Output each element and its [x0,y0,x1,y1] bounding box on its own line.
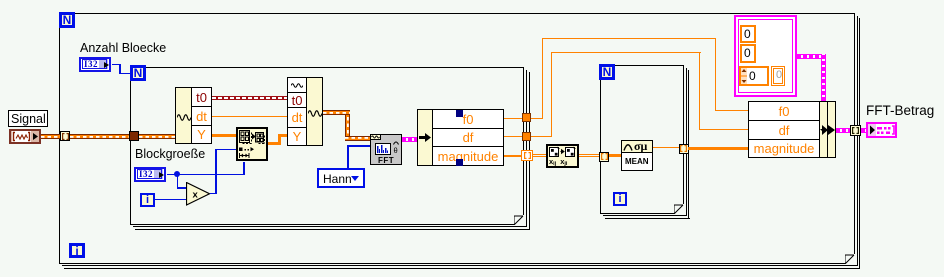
svg-text:xijxji: xijxji [549,157,568,166]
Signal waveform-array control [9,129,41,144]
Transpose 2D Array node [546,144,579,168]
f0 wire to tunnel [504,118,523,119]
Y subset wire to node2 with jog [267,142,281,145]
loop2 count terminal N [599,64,615,80]
I32 control Blockgroesse [134,167,166,182]
I32 control Anzahl Bloecke [79,57,111,72]
outer loop auto-index output tunnel [850,125,861,136]
loop2 iteration terminal i [613,192,627,206]
f0 tunnel on loop1 [522,113,531,122]
solid tunnel on loop1 [129,131,139,141]
cluster wire Bundle to outer tunnel [836,128,852,133]
cluster constant [734,15,797,97]
MEAN node [621,140,653,171]
wire tunnel to MEAN [609,154,621,157]
cluster wire tunnel to indicator [861,128,867,133]
wire I32 to inner loop N [112,64,121,66]
outer loop corner fold [845,254,855,264]
wire i to multiply [155,199,187,201]
multiply node [186,182,211,206]
label FFT-Betrag [866,103,934,118]
outer loop iteration terminal i [69,243,85,258]
2D array wire tunnel to transpose [533,154,546,155]
magnitude auto-index tunnel on loop1 [521,150,533,161]
cluster wire constant to Bundle [797,54,825,59]
f0 wire to Bundle [531,118,543,119]
loop2 corner fold [674,204,684,214]
loop2 input auto-index tunnel [599,152,609,162]
auto-index tunnel on outer loop [60,131,70,141]
loop1 corner fold [514,215,524,225]
df tunnel on loop1 [522,132,531,141]
df wire to Bundle [531,136,552,137]
wire MEAN to output tunnel [653,147,679,148]
loop1 count terminal N [130,65,146,81]
inner for loop 2 border [600,65,684,214]
t0 timestamp wire node1 to node2 [212,96,288,100]
Get Waveform Components node [175,87,192,144]
wire junction to multiply [177,173,179,189]
loop2 output auto-index tunnel [679,144,689,154]
inner for loop 1 border [130,67,524,225]
outer for loop border [59,13,855,264]
waveform wire into Get Waveform Components [139,134,175,139]
dt wire node1 to node2 [212,116,288,117]
wire Blockgroesse to subset length [167,174,245,176]
junction dot [174,171,180,177]
waveform wire tunnel to loop1 tunnel [70,134,129,139]
label Blockgroesse [135,147,205,161]
wire tunnel to Bundle magnitude [688,147,748,150]
unbundle scroll squares [456,110,463,117]
wire Hann to FFT [347,145,349,168]
label Signal [8,110,48,127]
outer loop count terminal N [59,12,75,28]
wire multiply to subset index [210,193,217,195]
Build Waveform node [287,77,307,93]
Array Subset node [236,127,268,161]
Y array wire node1 to Array Subset [212,134,237,137]
FFT Power Spectrum node [370,134,402,165]
svg-text:x: x [193,190,199,201]
df wire to tunnel [504,136,523,137]
waveform wire Signal to tunnel [41,134,61,139]
numeric constant 0 (f0) [740,25,756,43]
FFT-Betrag indicator terminal [866,122,897,138]
loop1 iteration terminal i [140,193,155,207]
array constant element (empty, grayed) [771,66,785,86]
cluster wire FFT to Unbundle [402,137,418,142]
Hann ring constant [317,168,365,188]
array constant index [739,66,769,86]
numeric constant 0 (df) [740,44,756,63]
label Anzahl Bloecke [80,41,166,55]
svg-text:σμ: σμ [634,141,648,152]
waveform wire Build Waveform to FFT [345,111,350,140]
2D wire transpose to loop2 [579,154,600,155]
Bundle By Name node [748,101,820,121]
Unbundle By Name node [417,109,433,166]
magnitude wire to tunnel [504,155,522,157]
